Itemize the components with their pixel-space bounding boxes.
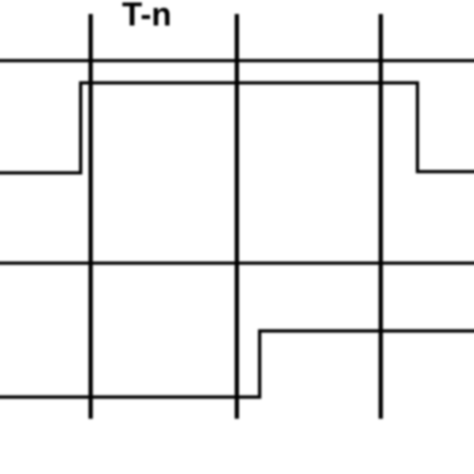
svg-text:T-n: T-n (122, 0, 171, 33)
